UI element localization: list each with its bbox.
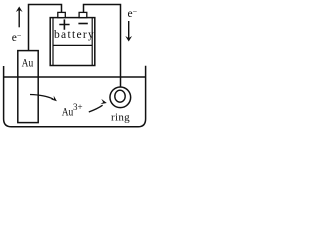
electron flow arrow down (right) — [128, 21, 130, 40]
svg-text:Au: Au — [62, 105, 74, 119]
battery inner right wall — [91, 18, 93, 66]
svg-text:Au: Au — [22, 56, 34, 70]
solution level line — [4, 76, 146, 78]
terminal + tab — [58, 12, 66, 17]
ring inner ellipse — [115, 90, 125, 102]
battery inner left wall — [52, 18, 54, 66]
electron flow arrow up (left) — [18, 8, 20, 27]
arrow Au3+ deposit onto ring — [89, 105, 103, 112]
svg-text:ring: ring — [111, 112, 130, 124]
battery outer case — [50, 18, 95, 66]
ring outer circle — [110, 87, 131, 108]
arrow Au dissolving into solution — [30, 95, 53, 100]
svg-text:battery: battery — [54, 29, 95, 41]
wire anode: Au bar top to battery + terminal — [29, 5, 62, 51]
battery divider line — [53, 44, 92, 46]
minus sign — [78, 23, 87, 25]
plus sign — [59, 19, 69, 29]
wire cathode: battery - terminal to ring — [84, 5, 121, 87]
terminal - tab — [79, 12, 87, 17]
electrode Au (gold bar) — [18, 51, 38, 123]
tank (beaker with rounded bottom corners) — [4, 66, 146, 127]
svg-text:3+: 3+ — [73, 102, 83, 112]
